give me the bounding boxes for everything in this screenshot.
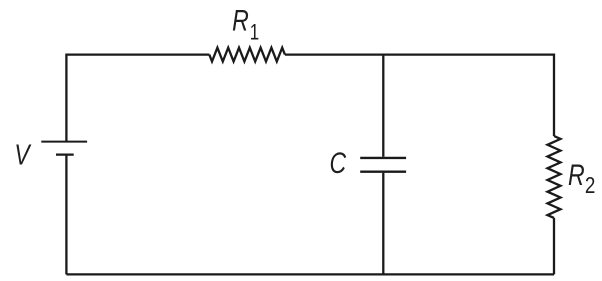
wire left lower: battery negative down to bottom rail xyxy=(65,155,67,275)
svg-text:C: C xyxy=(330,146,347,180)
label R1 xyxy=(232,4,259,45)
resistor R2 xyxy=(548,136,561,218)
svg-text:R: R xyxy=(232,4,249,38)
svg-text:2: 2 xyxy=(585,173,595,198)
svg-text:1: 1 xyxy=(250,21,259,46)
wire right lower: R2 to bottom-right corner xyxy=(553,218,555,275)
svg-text:R: R xyxy=(568,158,585,192)
resistor R1 xyxy=(209,48,285,62)
svg-text:V: V xyxy=(14,138,32,171)
battery V negative plate xyxy=(56,153,74,155)
label R2 xyxy=(568,158,595,198)
wire top-right: R1 to top-right corner xyxy=(285,55,554,136)
battery V positive plate xyxy=(41,141,87,143)
wire middle upper: top rail down to capacitor xyxy=(382,55,384,157)
wire middle lower: capacitor down to bottom rail xyxy=(382,173,384,275)
wire bottom rail xyxy=(66,273,554,275)
capacitor C xyxy=(360,158,406,172)
wire top-left: battery positive up and across to R1 xyxy=(66,55,209,142)
